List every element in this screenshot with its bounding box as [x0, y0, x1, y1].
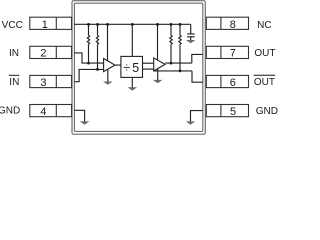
- svg-text:4: 4: [40, 106, 46, 118]
- svg-text:3: 3: [40, 77, 46, 89]
- svg-text:VCC: VCC: [2, 20, 23, 31]
- svg-text:8: 8: [230, 19, 236, 31]
- svg-text:IN: IN: [9, 77, 19, 88]
- svg-text:OUT: OUT: [254, 77, 275, 88]
- svg-text:1: 1: [42, 19, 48, 31]
- svg-text:OUT: OUT: [254, 48, 275, 59]
- svg-text:5: 5: [132, 61, 139, 75]
- svg-text:7: 7: [230, 48, 236, 60]
- svg-text:5: 5: [230, 106, 236, 118]
- svg-text:IN: IN: [9, 48, 19, 59]
- svg-text:2: 2: [40, 48, 46, 60]
- svg-text:GND: GND: [0, 106, 20, 117]
- svg-text:GND: GND: [256, 106, 278, 117]
- svg-text:6: 6: [230, 77, 236, 89]
- svg-text:÷: ÷: [123, 61, 130, 75]
- svg-text:NC: NC: [257, 20, 271, 31]
